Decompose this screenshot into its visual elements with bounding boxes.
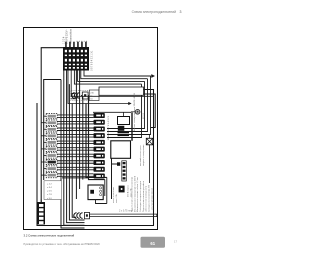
socket J10 right stack <box>94 173 105 178</box>
wire stubs into mains plug <box>71 94 76 99</box>
connector P5 left stack <box>44 140 58 145</box>
terminal block bottom left <box>38 200 46 225</box>
svg-text:датчик: датчик <box>142 113 144 119</box>
annotation cable <box>134 93 136 131</box>
socket J6 right stack <box>94 147 105 152</box>
wire mesh horizontal runs <box>57 115 93 176</box>
socket J4 right stack <box>94 133 105 138</box>
svg-text:3.2 Схема электрических подкл: 3.2 Схема электрических подключений <box>24 233 75 237</box>
mesh wires vertical <box>61 71 107 229</box>
wire vertical bundle right <box>107 76 151 138</box>
outer frame <box>24 28 158 230</box>
wire to relay box <box>93 112 131 116</box>
plug hooks bottom <box>74 213 83 219</box>
wires around pump box <box>96 177 107 203</box>
terminal block X1 pins <box>65 42 87 48</box>
relay box K1 <box>118 117 130 125</box>
svg-text:Netzanschluss: Netzanschluss <box>69 28 72 44</box>
svg-text:внешний контакт реле: внешний контакт реле <box>139 144 142 166</box>
svg-text:L N PE 230V~: L N PE 230V~ <box>67 29 69 44</box>
connector P1 left stack <box>44 114 58 119</box>
wire long horizontal 2 with arrow <box>68 71 131 105</box>
svg-text:провода электропитания 230: провода электропитания 230 <box>148 184 150 212</box>
svg-text:защиты от замерзания: защиты от замерзания <box>143 145 145 166</box>
arrow right top <box>151 75 155 77</box>
socket J1 right stack <box>94 113 105 118</box>
inner frame appliance boundary <box>37 48 154 226</box>
connector P9 left stack <box>44 166 58 171</box>
svg-text:2 x 0,75 mm²: 2 x 0,75 mm² <box>119 209 133 212</box>
socket J8 right stack <box>94 160 105 165</box>
connector P4 left stack <box>41 133 57 138</box>
caption <box>24 233 75 237</box>
legend box <box>44 181 62 200</box>
svg-text:Схема электроподключений: Схема электроподключений <box>132 10 177 14</box>
terminal block X1 labels above <box>64 28 73 44</box>
bars <box>118 132 130 136</box>
wire bus to right with arrow <box>74 71 150 85</box>
plug body top <box>71 90 92 100</box>
svg-text:электропитание насоса: электропитание насоса <box>152 187 154 210</box>
wire long horizontal 1 <box>71 71 153 97</box>
wire thick vertical <box>131 112 133 141</box>
cable duct box <box>99 87 144 95</box>
power cable bottom <box>90 209 157 216</box>
svg-text:кабеля 1,5 мм провода сети: кабеля 1,5 мм провода сети <box>146 186 148 212</box>
connector P10 left stack <box>41 172 57 177</box>
socket J3 right stack <box>94 126 105 131</box>
svg-text:Максимальное напряжение сети 2: Максимальное напряжение сети 230 В <box>134 175 136 212</box>
sensor circle <box>131 109 144 119</box>
socket J9 right stack <box>94 167 105 172</box>
wire from control unit down <box>112 158 118 199</box>
svg-text:Подключение внешних устройств: Подключение внешних устройств <box>142 181 145 212</box>
annotation pin numbers <box>108 115 110 141</box>
connector P3 left stack <box>44 127 58 132</box>
connector P8 left stack <box>41 159 57 164</box>
footer <box>24 243 101 246</box>
svg-text:230 В перем.: 230 В перем. <box>128 184 130 197</box>
connector P7 left stack <box>44 153 58 158</box>
socket J2 right stack <box>94 120 105 125</box>
connector P6 left stack <box>41 146 57 151</box>
wire cable to frame right <box>144 94 156 128</box>
plug hooks top <box>72 93 83 99</box>
terminal block X1 body <box>63 47 89 71</box>
control unit box U1 <box>111 141 131 159</box>
plug body bottom <box>85 212 90 218</box>
sensor box with dot <box>119 186 125 193</box>
svg-text:макс. 2 А: макс. 2 А <box>115 194 118 203</box>
svg-text:61: 61 <box>150 241 155 246</box>
terminal strip ladder <box>122 161 127 181</box>
junction box with X <box>146 135 153 184</box>
svg-text:9 8 7 6 5 4 3 2 1 X1: 9 8 7 6 5 4 3 2 1 X1 <box>92 50 94 71</box>
svg-text:Соблюдать полярность проводов: Соблюдать полярность проводов <box>140 181 142 212</box>
svg-text:12 11 10 9 8 7 6 5 4 3 2 1: 12 11 10 9 8 7 6 5 4 3 2 1 <box>108 115 110 141</box>
fuse nub <box>117 162 120 166</box>
svg-text:Минимальное сечение кабеля 1,5: Минимальное сечение кабеля 1,5 мм <box>137 177 139 212</box>
annotation near sensor box <box>128 184 133 197</box>
socket J5 right stack <box>94 140 105 145</box>
annotations right column <box>113 144 153 212</box>
terminal block X1 pin dots <box>77 41 88 42</box>
svg-text:Руководство по установке и тех: Руководство по установке и техн. обслужи… <box>24 243 101 246</box>
connector P2 left stack <box>41 120 57 125</box>
svg-text:3: 3 <box>180 10 182 14</box>
socket J7 right stack <box>94 153 105 158</box>
terminal block X1 side label <box>92 50 94 71</box>
header title <box>132 10 182 14</box>
page number box <box>141 237 178 248</box>
contactor block <box>118 126 125 131</box>
pump box bottom <box>88 185 103 200</box>
label box mains <box>89 90 99 101</box>
svg-text:Подключение кабеля электропита: Подключение кабеля электропитания <box>132 177 134 212</box>
